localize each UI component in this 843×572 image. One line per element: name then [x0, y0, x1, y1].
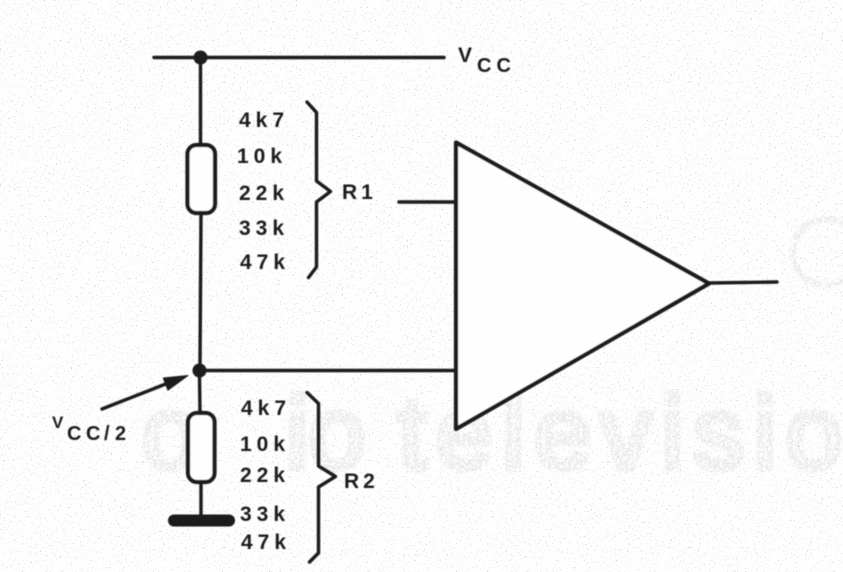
svg-text:V: V	[458, 44, 472, 67]
svg-text:R2: R2	[344, 470, 379, 493]
svg-text:CC: CC	[477, 55, 516, 77]
svg-text:33k: 33k	[239, 217, 289, 240]
svg-text:22k: 22k	[240, 464, 290, 487]
svg-text:R1: R1	[342, 181, 377, 204]
svg-text:22k: 22k	[239, 182, 289, 205]
svg-text:4k7: 4k7	[239, 109, 289, 132]
svg-text:C: C	[67, 423, 81, 445]
svg-text:2: 2	[115, 423, 126, 445]
svg-text:33k: 33k	[240, 503, 290, 526]
svg-text:47k: 47k	[240, 251, 290, 274]
svg-text:10k: 10k	[237, 145, 287, 168]
svg-text:10k: 10k	[240, 433, 290, 456]
svg-text:4k7: 4k7	[241, 397, 291, 420]
svg-text:V: V	[52, 413, 64, 432]
svg-text:47k: 47k	[241, 531, 291, 554]
svg-text:C: C	[86, 423, 100, 445]
svg-text:/: /	[104, 423, 110, 445]
